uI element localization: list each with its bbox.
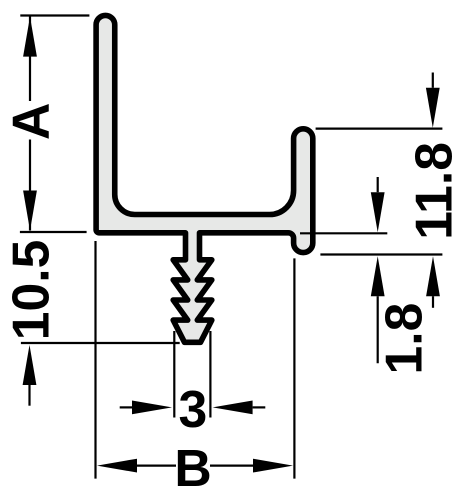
svg-text:1.8: 1.8 <box>375 303 433 375</box>
dim A line upper segment <box>29 16 31 101</box>
dim 3 left extension line <box>173 331 175 418</box>
dim B right extension line <box>293 258 295 478</box>
dim 11.8 top arrow tail <box>432 73 434 88</box>
dim 1.8 top arrow down <box>371 192 385 232</box>
dim 1.8 bottom arrow up <box>371 256 385 296</box>
dim B left extension line <box>94 241 96 479</box>
dim 10.5 arrow tail <box>28 385 30 406</box>
dim B right line segment <box>210 465 253 467</box>
dim A top extension line <box>20 14 89 16</box>
dim 11.8 bottom arrow tail <box>432 296 434 308</box>
svg-text:10.5: 10.5 <box>2 240 60 341</box>
svg-text:B: B <box>174 439 211 497</box>
dim 11.8 top extension line <box>316 128 443 130</box>
dim 3 right extension line <box>209 331 211 418</box>
dim 10.5 arrow up <box>23 345 37 385</box>
svg-text:11.8: 11.8 <box>405 142 463 240</box>
profile cross-section body <box>96 15 313 342</box>
dim 1.8 bottom arrow tail <box>377 296 379 363</box>
dim A arrow up <box>23 17 37 57</box>
dim 11.8 bottom arrow up <box>426 256 440 296</box>
dim 3 right arrow tail <box>253 406 266 408</box>
dim 3 right arrow <box>213 401 253 415</box>
dim A line lower segment <box>29 140 31 231</box>
svg-text:A: A <box>2 103 60 140</box>
dim 10.5 bottom extension line <box>21 342 180 344</box>
dim 3 left arrow <box>132 401 172 415</box>
dim 11.8 / 1.8 bottom extension line <box>320 253 442 255</box>
dim B left line segment <box>137 465 176 467</box>
dim B right arrow <box>253 459 293 473</box>
dim 3 left arrow tail <box>120 406 132 408</box>
dim B left arrow <box>97 459 137 473</box>
dim 11.8 top arrow down <box>426 88 440 128</box>
dim 1.8 top arrow tail <box>377 177 379 192</box>
dim A arrow down <box>23 191 37 231</box>
svg-text:3: 3 <box>179 380 208 438</box>
dim 1.8 top extension line <box>300 232 387 234</box>
shared extension line (A bottom / 10.5 top) <box>20 231 87 233</box>
